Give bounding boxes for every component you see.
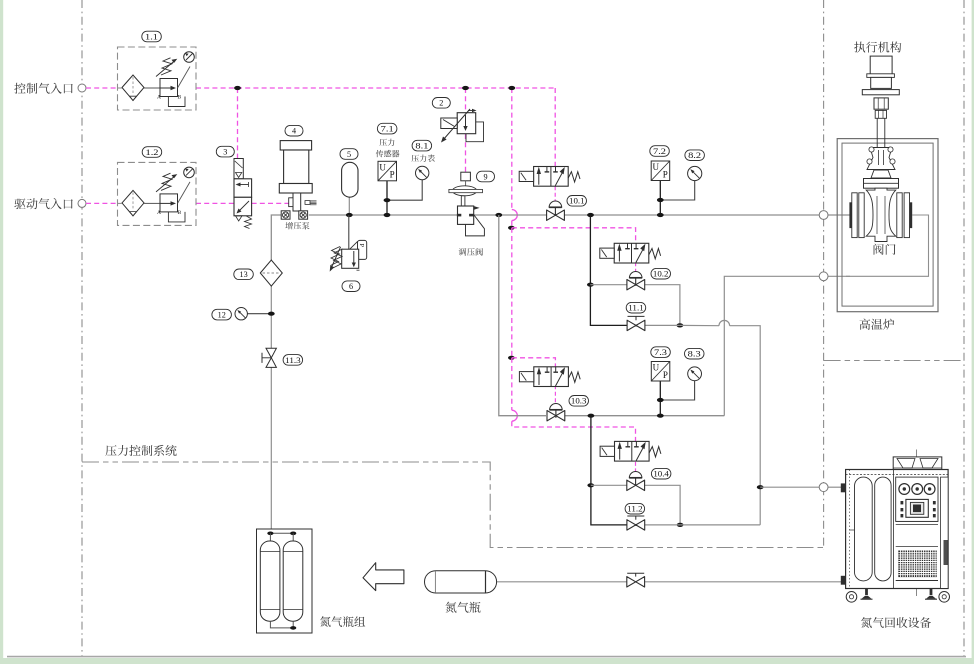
pink dot junction (465.5,88)	[462, 86, 469, 90]
label 调压阀	[459, 248, 483, 256]
manual valve on bottle line handle	[627, 572, 644, 574]
svg-text:4: 4	[292, 127, 296, 136]
nitrogen bottle 氮气瓶	[425, 571, 497, 593]
pink jump over 10.3 line	[512, 410, 518, 421]
bubble 7.1	[377, 123, 397, 134]
filter-regulator unit 1.1	[118, 47, 197, 110]
label 驱动气入口	[14, 198, 72, 209]
recovery feed into equipment	[828, 486, 842, 488]
green page margin right	[972, 0, 974, 664]
valve 3 (pilot operated 3/2)	[234, 159, 243, 179]
junction dot (660.3,415.7)	[657, 414, 664, 418]
pressure sensor 7.1 (U/P)	[378, 161, 397, 181]
gauge 8.3 connection	[660, 381, 694, 400]
accumulator 5	[342, 162, 358, 197]
manual valve 11.3	[266, 348, 276, 367]
label 氮气瓶	[445, 602, 480, 613]
valve 11.3 to bottle group line	[270, 367, 272, 529]
gate valve 阀门	[867, 148, 895, 170]
boundary dash-dot vertical x=82	[81, 0, 83, 656]
label 控制气入口	[14, 83, 73, 94]
svg-text:B: B	[178, 210, 182, 216]
manual valve 11.1	[627, 320, 645, 330]
bubble 8.3	[685, 348, 705, 359]
solenoid valve above 10.1	[534, 167, 569, 187]
main pipe pump to furnace	[309, 214, 819, 216]
port circle drive air inlet	[78, 199, 86, 207]
air-operated valve 10.4	[627, 480, 645, 490]
pink run to solenoid of valve 10.2	[512, 228, 636, 244]
bubble 10.2	[651, 268, 671, 279]
sensor 7.3 (U/P)	[651, 362, 670, 382]
svg-text:B: B	[178, 95, 182, 101]
junction dot (679.9,325.4)	[677, 323, 684, 327]
bubble 9	[477, 171, 495, 182]
svg-text:11.1: 11.1	[628, 304, 644, 313]
junction dot (387,200.2)	[384, 198, 391, 202]
pipe into furnace lower	[828, 275, 850, 277]
manual valve 11.2	[627, 520, 645, 530]
green page margin bottom	[0, 658, 974, 664]
gate valve internal return pipe	[846, 215, 929, 276]
pink line FRL 1.2 to valve 3	[196, 202, 234, 204]
boundary dash-dot horizontal y=360.5 (furnace zone bottom)	[824, 360, 964, 362]
air-operated valve 10.3	[547, 411, 565, 421]
filter-regulator unit 1.2	[118, 162, 197, 225]
air-operated valve 10.2 dome	[629, 272, 642, 278]
port circle recovery feed	[819, 483, 828, 492]
pressure gauge 8.3	[688, 367, 702, 381]
pink pilot drop solenoid2 to dome 10.2	[635, 262, 637, 271]
booster pump 4 (增压泵)	[280, 141, 311, 150]
svg-text:12: 12	[218, 311, 226, 320]
junction dot (590.5,215)	[587, 213, 594, 217]
gauge 8.1 connection	[387, 180, 422, 201]
gauge 12 connection	[247, 313, 271, 315]
pink dot junction (511.8,88)	[508, 86, 515, 90]
valve 2 (adjustable reducer)	[457, 113, 476, 134]
solenoid valve above 10.4	[615, 441, 650, 461]
bubble 1.2	[142, 147, 162, 158]
bubble 8.1	[412, 140, 432, 151]
pink drop x=465.5 to valve 2	[465, 88, 467, 112]
gauge 12	[235, 308, 247, 320]
boundary dash-dot vertical x=964 (right)	[963, 0, 965, 656]
svg-text:9: 9	[483, 172, 487, 181]
svg-text:11.2: 11.2	[627, 505, 643, 514]
furnace return riser	[724, 276, 819, 415]
sensor 7.3 drop	[659, 381, 661, 416]
bubble 3	[216, 146, 234, 157]
air-operated valve 10.2	[627, 280, 645, 290]
svg-text:U: U	[653, 162, 660, 172]
black drop 10.3 line to 10.4/11.2 nodes	[591, 416, 627, 525]
bubble 8.2	[685, 150, 705, 161]
junction dot (660.3,215)	[657, 213, 664, 217]
junction dot (271.3,313.7)	[268, 312, 275, 316]
pink pilot drop solenoid3 to dome 10.3	[554, 385, 556, 403]
pink elbow to solenoid of valve 10.4	[512, 421, 636, 441]
pink node dot (511.4,357.8)	[508, 356, 515, 360]
manual valve 11.1 handle	[628, 315, 645, 317]
air-operated valve 10.1 dome	[549, 201, 562, 207]
svg-text:13: 13	[240, 270, 248, 279]
junction dot (660.3,400)	[657, 398, 664, 402]
manual valve on bottle line	[627, 577, 645, 587]
pink node dot (511.8,227.8)	[508, 226, 515, 230]
svg-text:7.3: 7.3	[654, 348, 667, 357]
bubble 10.4	[651, 468, 671, 479]
svg-text:6: 6	[349, 282, 353, 291]
nitrogen recovery equipment 氮气回收设备	[916, 450, 918, 597]
furnace box 高温炉	[837, 139, 938, 312]
jump arc over furnace return line	[719, 320, 730, 325]
sensor 7.2 drop	[659, 181, 661, 216]
11.1 line after jump	[730, 326, 761, 525]
pink pilot drop solenoid4 to dome 10.4	[635, 462, 637, 472]
pink control line from drive inlet to FRL 1.2	[86, 202, 118, 204]
bubble 11.1	[626, 302, 646, 313]
bubble 1.1	[142, 31, 162, 42]
10.4 branch line	[591, 484, 627, 486]
svg-text:A: A	[157, 210, 161, 216]
10.2 branch right elbow	[645, 285, 680, 326]
svg-text:P: P	[390, 170, 395, 180]
svg-text:10.1: 10.1	[569, 197, 585, 206]
air-operated valve 10.1	[547, 210, 565, 220]
label 压力	[380, 139, 395, 146]
junction dot 10.4 left (590.8,485.3)	[587, 483, 594, 487]
label 增压泵	[286, 222, 310, 230]
pressure gauge 8.1	[416, 166, 429, 179]
label 高温炉	[859, 319, 894, 330]
junction dot 10.2 left (590.4,284.7)	[587, 283, 594, 287]
bubble 11.2	[625, 503, 645, 514]
svg-text:2: 2	[439, 99, 443, 108]
10.2 branch line	[590, 284, 627, 286]
bubble 12	[212, 309, 232, 320]
boundary dash-dot vertical x=823.6 (furnace zone left)	[823, 0, 825, 549]
junction dot accumulator	[346, 213, 353, 217]
pink branch down to valve 3 pilot	[237, 88, 239, 159]
bubble 6	[342, 281, 360, 292]
manual valve 11.2 handle	[627, 515, 644, 517]
sensor 7.1 drop	[386, 181, 388, 216]
label 传感器	[376, 150, 400, 157]
drawing frame bottom edge	[7, 656, 966, 658]
bubble 7.2	[650, 146, 670, 157]
label 压力控制系统	[105, 445, 176, 456]
svg-text:10.4: 10.4	[653, 470, 669, 479]
svg-text:P: P	[663, 370, 668, 380]
junction dot (660.3,200)	[657, 198, 664, 202]
11.1 line to right riser with jump	[680, 324, 719, 326]
svg-text:8.3: 8.3	[688, 350, 701, 359]
recovery equipment feed line	[760, 486, 819, 488]
left block arrow	[363, 563, 404, 591]
gray drop to 10.3 line	[499, 215, 546, 416]
svg-text:U: U	[653, 363, 660, 373]
svg-text:10.2: 10.2	[653, 270, 669, 279]
filter 13	[260, 260, 282, 286]
pink pilot drop solenoid1 to dome 10.1	[554, 186, 556, 201]
junction dot (387,215)	[384, 213, 391, 217]
label 氮气回收设备	[861, 617, 931, 628]
svg-text:5: 5	[347, 150, 351, 159]
pink jump over main line x=511.8	[512, 210, 518, 221]
label 氮气瓶组	[320, 616, 365, 627]
nitrogen bottle group 氮气瓶组	[257, 529, 313, 633]
svg-text:1.1: 1.1	[145, 32, 158, 41]
pink corner down to solenoid of valve 10.1	[554, 88, 556, 167]
label 压力表	[412, 155, 435, 162]
pink vertical below 357.8 with jump	[511, 358, 513, 410]
port circle furnace upper	[819, 211, 828, 220]
svg-text:10.3: 10.3	[571, 397, 587, 406]
pink dot junction (237.5,88)	[234, 86, 241, 90]
bubble 2	[432, 98, 450, 109]
10.4 branch right elbow	[644, 485, 680, 525]
black drop main to 10.2/11.1 nodes	[590, 215, 627, 325]
11.1 branch line segment	[645, 324, 680, 326]
main pipe left elbow to filter 13	[271, 215, 281, 260]
svg-text:A: A	[157, 95, 161, 101]
sensor 7.2 (U/P)	[651, 161, 670, 181]
gauge 8.2 connection	[660, 181, 694, 200]
air-operated valve 10.4 dome	[629, 471, 642, 477]
11.2 line to right riser	[680, 524, 760, 526]
svg-text:3: 3	[223, 148, 227, 157]
pink vertical 227.8 to 357.8	[511, 228, 513, 358]
port circle furnace lower	[819, 272, 828, 281]
bubble 11.3	[283, 355, 303, 366]
bubble 13	[234, 269, 254, 280]
10.3 branch line	[565, 415, 725, 417]
bubble 7.3	[651, 347, 671, 358]
svg-text:P: P	[358, 243, 365, 247]
bubble 10.3	[569, 396, 589, 407]
relief valve 6 drop	[348, 215, 350, 250]
svg-text:11.3: 11.3	[285, 356, 301, 365]
pink control line from control inlet to FRL 1.1	[86, 87, 118, 89]
actuator 执行机构	[870, 56, 892, 74]
pressure regulator 9 (调压阀)	[461, 172, 471, 181]
solenoid valve above 10.3	[534, 367, 569, 387]
junction dot (680.1,524.9)	[677, 523, 684, 527]
junction dot (760.2,487.2)	[757, 485, 764, 489]
pink line valve 3 to booster pump	[252, 202, 289, 204]
junction dot (590.9,415.7)	[588, 414, 595, 418]
pipe into furnace upper	[828, 214, 850, 216]
filter 13 to valve 11.3 line	[270, 286, 272, 348]
pink segment to node dot	[511, 221, 513, 228]
solenoid valve above 10.2	[614, 243, 649, 263]
label 执行机构	[854, 42, 901, 53]
nitrogen bottle line	[497, 581, 627, 583]
pink control line main top run	[196, 87, 555, 89]
accumulator 5 drop	[348, 197, 350, 215]
label 阀门	[874, 244, 896, 255]
pink drop x=511.8 to node	[511, 88, 513, 210]
pink drop valve 2 to regulator 9	[465, 134, 467, 172]
bubble 5	[340, 149, 358, 160]
svg-text:7.1: 7.1	[381, 125, 394, 134]
svg-text:8.2: 8.2	[688, 151, 701, 160]
green page margin left	[0, 0, 3, 664]
svg-text:1.2: 1.2	[146, 148, 159, 157]
port circle control air inlet	[78, 84, 86, 92]
11.2 branch line segment	[645, 524, 680, 526]
air-operated valve 10.3 dome	[550, 404, 563, 410]
pink run to solenoid of valve 10.3	[512, 358, 556, 367]
svg-text:P: P	[663, 169, 668, 179]
relief valve 6	[358, 240, 367, 259]
pressure gauge 8.2	[688, 166, 702, 180]
junction dot (498.8,215)	[495, 213, 502, 217]
svg-text:8.1: 8.1	[415, 142, 428, 151]
bubble 4	[285, 125, 303, 136]
pressure-control-system dashed boundary	[82, 462, 824, 548]
svg-text:U: U	[379, 163, 386, 173]
bubble 10.1	[567, 196, 587, 207]
nitrogen bottle line to equipment	[645, 581, 842, 583]
svg-text:7.2: 7.2	[653, 147, 666, 156]
